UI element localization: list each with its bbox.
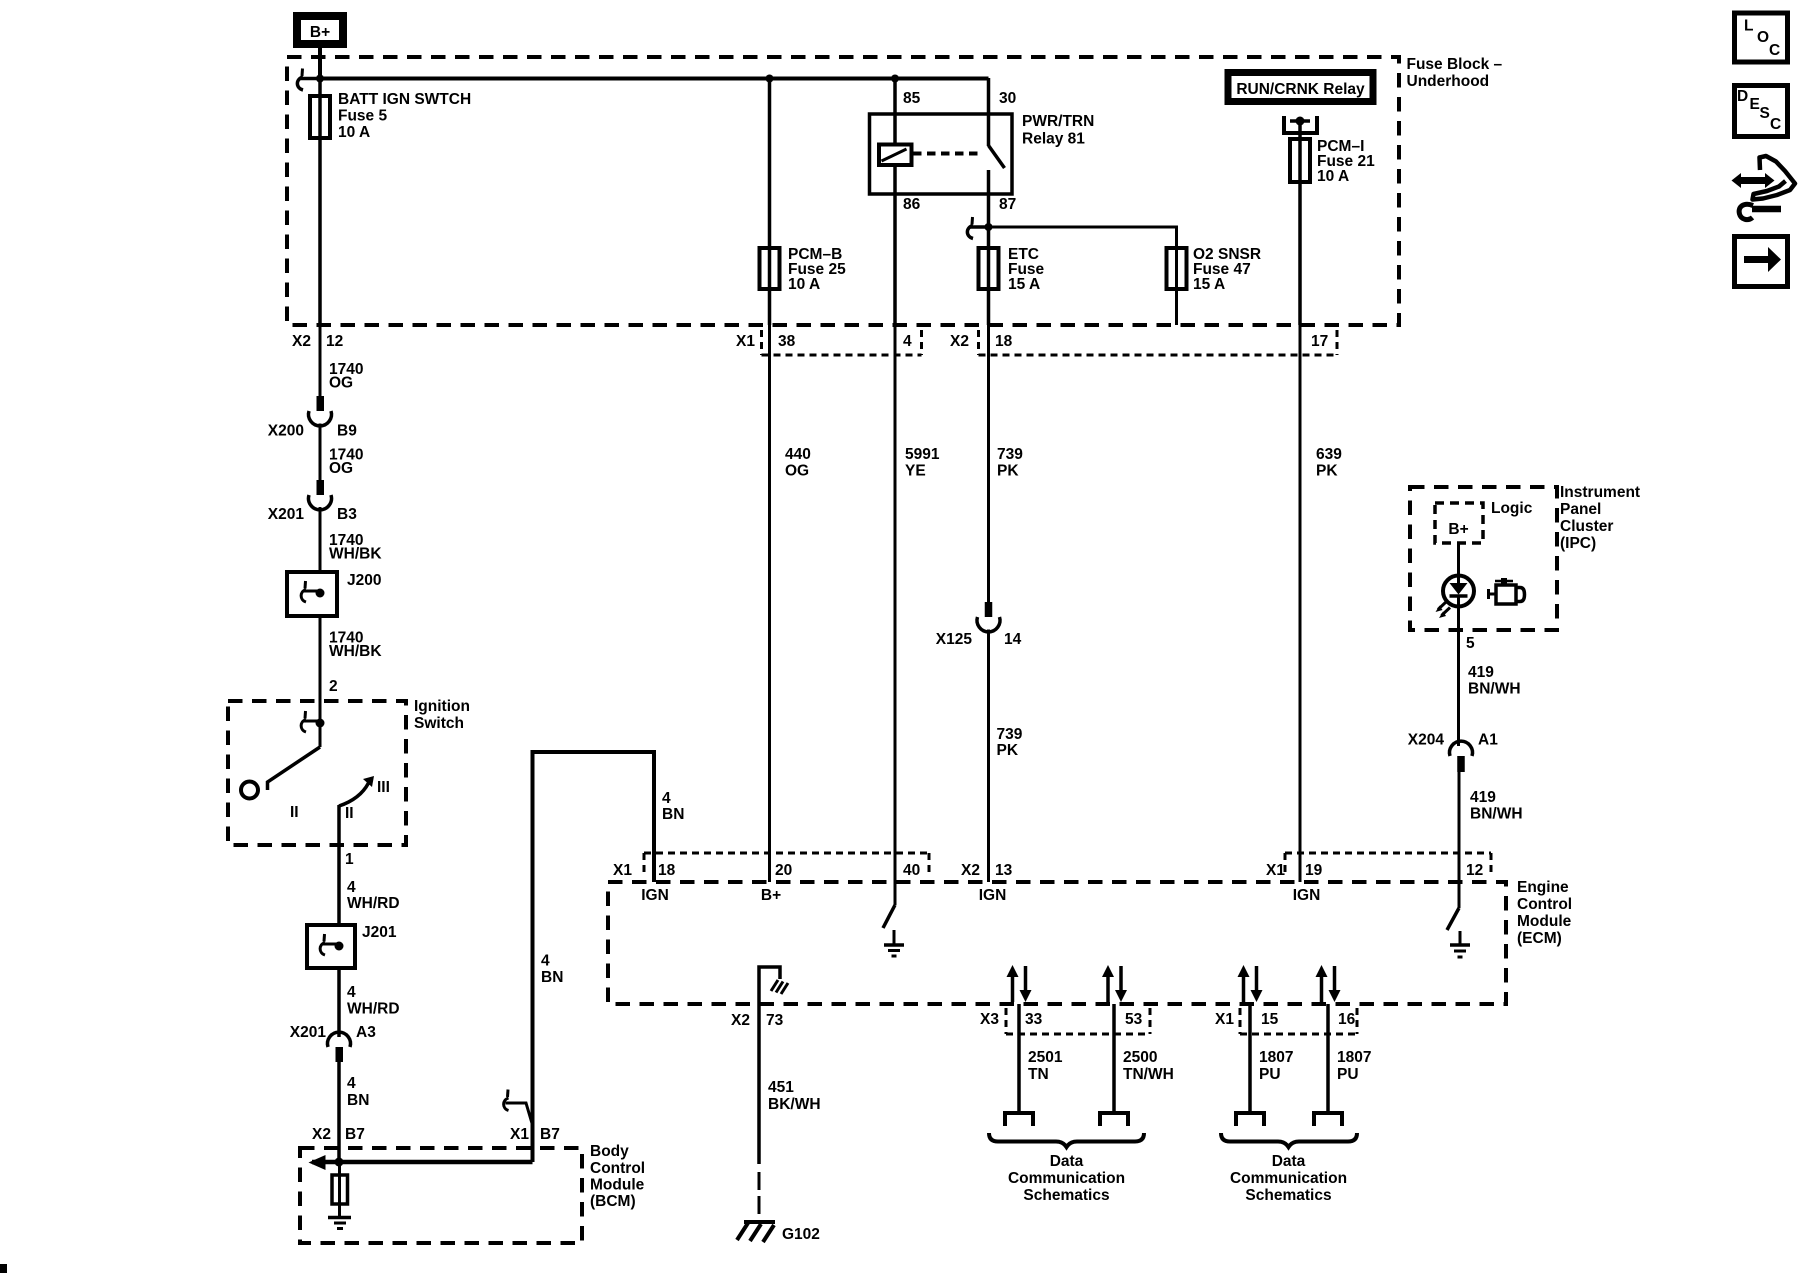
svg-text:IGN: IGN [979, 887, 1007, 904]
LOC reference box [1735, 13, 1788, 62]
svg-text:C: C [1769, 42, 1780, 59]
wire 4 BN from X201-A3 to BCM [312, 1062, 369, 1162]
wire 1740 OG from X200 [320, 424, 363, 483]
ECM pin X2-73 internal chassis ground [759, 967, 788, 1004]
svg-text:OG: OG [329, 375, 353, 392]
svg-text:B+: B+ [1448, 521, 1468, 538]
svg-text:O: O [1757, 29, 1769, 46]
svg-text:19: 19 [1305, 862, 1323, 879]
svg-text:IGN: IGN [641, 887, 669, 904]
svg-text:10 A: 10 A [788, 276, 820, 293]
svg-text:(IPC): (IPC) [1560, 535, 1596, 552]
fuse block connector X2 pin 12 labels [292, 333, 343, 350]
svg-text:1807: 1807 [1337, 1049, 1371, 1066]
svg-text:30: 30 [999, 90, 1016, 107]
wire B+ to indicator LED [1457, 543, 1460, 577]
svg-text:2501: 2501 [1028, 1049, 1063, 1066]
DESC reference box [1735, 86, 1788, 137]
svg-text:1: 1 [345, 851, 354, 868]
fuse PCM-B Fuse 25 10A [760, 246, 847, 293]
svg-text:12: 12 [1466, 862, 1483, 879]
svg-text:18: 18 [658, 862, 676, 879]
svg-text:Switch: Switch [414, 715, 464, 732]
svg-text:PK: PK [997, 463, 1019, 480]
forward arrow box [1735, 237, 1788, 287]
relay output terminal bracket [1284, 116, 1317, 139]
svg-text:419: 419 [1470, 789, 1496, 806]
svg-text:X204: X204 [1408, 732, 1445, 749]
pointer squiggle icon [1732, 156, 1796, 220]
wire PCM-I fuse down to pin 17 [1298, 139, 1302, 325]
svg-text:L: L [1744, 18, 1753, 35]
svg-text:Data: Data [1050, 1153, 1084, 1170]
wire 739 PK X125 to ECM X2-13 [989, 630, 1023, 883]
wire branch to O2 SNSR fuse [989, 227, 1177, 248]
wire inside BCM with arrow [309, 1155, 533, 1170]
svg-text:2500: 2500 [1123, 1049, 1157, 1066]
wire 4 BN label near ECM pin 18 [662, 790, 684, 823]
svg-text:18: 18 [995, 333, 1013, 350]
svg-text:20: 20 [775, 862, 792, 879]
svg-text:14: 14 [1004, 631, 1022, 648]
svg-text:B7: B7 [540, 1126, 560, 1143]
svg-text:Relay 81: Relay 81 [1022, 131, 1085, 148]
wire 1807 PU from pin 15 [1250, 1004, 1293, 1113]
svg-text:4: 4 [903, 333, 912, 350]
in-line connector X125 pin 14 [936, 602, 1022, 648]
svg-text:OG: OG [329, 460, 353, 477]
svg-text:X200: X200 [268, 423, 304, 440]
ECM connector X1 bottom bracket pins 15 and 16 [1215, 1008, 1357, 1034]
ground G102 [737, 1222, 820, 1243]
splice hook inside ignition switch [301, 711, 324, 732]
wire ignition switch pin 1 [339, 805, 400, 925]
svg-text:J200: J200 [347, 572, 381, 589]
wire 419 BN/WH X204 to ECM pin 12 [1459, 771, 1523, 882]
in-line connector X201 pin A3 [290, 1024, 376, 1062]
svg-text:B9: B9 [337, 423, 357, 440]
wire relay pin 30 from bus [987, 78, 991, 146]
ECM connector X3 bottom bracket pins 33 and 53 [980, 1008, 1150, 1034]
indicator LED in IPC [1443, 576, 1474, 607]
Engine Control Module (ECM) dashed box [608, 879, 1572, 1004]
svg-text:Data: Data [1272, 1153, 1306, 1170]
svg-text:WH/RD: WH/RD [347, 1001, 400, 1018]
svg-text:Communication: Communication [1008, 1170, 1125, 1187]
wire 440 OG PCM-B fuse to ECM pin 20 [770, 325, 811, 882]
wire from B+ box into fuse block [318, 48, 322, 78]
svg-text:Communication: Communication [1230, 1170, 1347, 1187]
svg-text:13: 13 [995, 862, 1013, 879]
fuse ETC Fuse 15A [979, 246, 1045, 293]
svg-text:A3: A3 [356, 1024, 376, 1041]
wire 1740 OG from X2-12 [320, 325, 363, 398]
junction block J201 [307, 924, 397, 968]
engine icon (MIL) in IPC [1489, 578, 1525, 604]
svg-text:J201: J201 [362, 924, 397, 941]
svg-text:B7: B7 [345, 1126, 365, 1143]
svg-text:Engine: Engine [1517, 879, 1569, 896]
wire 451 BK/WH from ECM X2-73 [759, 1004, 821, 1164]
svg-text:12: 12 [326, 333, 343, 350]
svg-text:86: 86 [903, 196, 921, 213]
Ignition Switch dashed box [228, 698, 470, 845]
junction node at relay 85 branch [891, 75, 899, 83]
wire PCM-B through fuse block [768, 78, 772, 325]
svg-text:Body: Body [590, 1143, 629, 1160]
svg-text:(BCM): (BCM) [590, 1193, 636, 1210]
svg-text:WH/RD: WH/RD [347, 895, 400, 912]
svg-text:B+: B+ [310, 24, 330, 41]
svg-text:40: 40 [903, 862, 920, 879]
off-page terminator pin 53 [1100, 1113, 1128, 1126]
svg-text:BN: BN [541, 969, 563, 986]
svg-text:440: 440 [785, 446, 811, 463]
svg-text:419: 419 [1468, 664, 1494, 681]
wire through fuse 5 down to X2-12 [318, 78, 322, 325]
junction node at pin 87 branch [985, 223, 993, 231]
svg-text:2: 2 [329, 678, 338, 695]
ignition switch rotary arc to III [339, 776, 374, 806]
junction node at B+ fuse 5 [316, 75, 324, 83]
Fuse Block - Underhood label [1407, 56, 1503, 90]
Data Communication Schematics label right [1230, 1153, 1347, 1204]
relay actuation dashed link [913, 152, 983, 156]
wire 2500 TN/WH from pin 53 [1114, 1004, 1174, 1113]
off-page terminator pin 16 [1314, 1113, 1342, 1126]
ECM pin 40 internal switch to ground [883, 882, 904, 956]
wire 639 PK PCM-I fuse to ECM X1-19 [1300, 325, 1342, 882]
svg-text:III: III [377, 779, 390, 796]
B+ battery feed box [297, 16, 343, 44]
wire 1807 PU from pin 16 [1328, 1004, 1371, 1113]
svg-text:739: 739 [997, 726, 1023, 743]
svg-text:5: 5 [1466, 635, 1475, 652]
ECM pin 12 internal switch to ground [1447, 882, 1470, 957]
wire 4 WH/RD from J201 [339, 968, 400, 1037]
wire relay pin 86 down through coil [893, 165, 897, 325]
brace data communication right [1221, 1133, 1357, 1147]
svg-text:1807: 1807 [1259, 1049, 1293, 1066]
svg-text:A1: A1 [1478, 732, 1498, 749]
brace data communication left [989, 1133, 1144, 1147]
svg-text:73: 73 [766, 1012, 784, 1029]
wire IPC pin 5 down to X204 [1459, 606, 1521, 746]
svg-text:BN: BN [347, 1092, 369, 1109]
svg-text:X2: X2 [312, 1126, 331, 1143]
Instrument Panel Cluster (IPC) dashed box [1410, 484, 1640, 630]
svg-text:E: E [1750, 96, 1760, 113]
svg-text:38: 38 [778, 333, 796, 350]
wire 1740 WH/BK from J200 to ignition switch pin 2 [320, 616, 382, 747]
wire 4 BN from BCM X1-B7 up and over to ECM pin 18 [510, 752, 654, 1162]
svg-text:PK: PK [997, 742, 1019, 759]
fuse inside BCM [332, 1175, 348, 1204]
ECM connector X1 top bracket pins 18 20 40 [613, 853, 929, 879]
svg-text:RUN/CRNK Relay: RUN/CRNK Relay [1236, 81, 1365, 98]
ECM serial data pin 53 arrows [1102, 965, 1127, 1002]
svg-text:X125: X125 [936, 631, 973, 648]
svg-text:BN/WH: BN/WH [1470, 806, 1523, 823]
svg-text:5991: 5991 [905, 446, 940, 463]
svg-text:87: 87 [999, 196, 1016, 213]
relay coil [879, 145, 912, 166]
ignition switch position labels [290, 779, 390, 822]
svg-text:Schematics: Schematics [1023, 1187, 1109, 1204]
svg-text:G102: G102 [782, 1226, 820, 1243]
svg-text:Fuse Block –: Fuse Block – [1407, 56, 1503, 73]
LED emission arrows [1436, 602, 1451, 619]
svg-text:Instrument: Instrument [1560, 484, 1640, 501]
RUN/CRNK Relay label box [1228, 73, 1373, 102]
fuse O2 SNSR Fuse 47 15A [1167, 246, 1262, 293]
svg-text:X1: X1 [1215, 1011, 1234, 1028]
svg-text:C: C [1770, 116, 1781, 133]
svg-text:D: D [1737, 88, 1748, 105]
svg-text:Cluster: Cluster [1560, 518, 1613, 535]
fuse PCM-I Fuse 21 10A [1290, 138, 1375, 185]
wire BCM fuse to ground [338, 1162, 341, 1217]
ECM connector X2 pin 13 labels [961, 862, 1013, 904]
svg-text:15: 15 [1261, 1011, 1279, 1028]
svg-text:53: 53 [1125, 1011, 1143, 1028]
svg-text:II: II [290, 804, 299, 821]
wire continuation dashes to G102 [758, 1172, 761, 1214]
svg-text:Schematics: Schematics [1245, 1187, 1331, 1204]
svg-text:B+: B+ [761, 887, 781, 904]
svg-text:4: 4 [347, 1075, 356, 1092]
relay switch blade pin 30 to 87 [989, 146, 1005, 195]
relay U81 PWR/TRN box [870, 90, 1095, 213]
wire relay pin 87 down [987, 194, 991, 325]
svg-text:OG: OG [785, 463, 809, 480]
svg-text:Control: Control [1517, 896, 1572, 913]
page corner mark [0, 1264, 7, 1273]
wire O2 SNSR fuse to block edge [1175, 248, 1178, 325]
svg-text:IGN: IGN [1293, 887, 1321, 904]
svg-text:X2: X2 [292, 333, 311, 350]
svg-text:Module: Module [590, 1177, 645, 1194]
svg-text:X1: X1 [736, 333, 755, 350]
svg-text:X1: X1 [613, 862, 632, 879]
svg-text:PU: PU [1337, 1066, 1359, 1083]
svg-text:Underhood: Underhood [1407, 73, 1490, 90]
splice hook at left end of B+ bus [297, 69, 320, 91]
svg-text:TN/WH: TN/WH [1123, 1066, 1174, 1083]
svg-text:X1: X1 [510, 1126, 529, 1143]
svg-text:Ignition: Ignition [414, 698, 470, 715]
IPC internal B+ dashed box [1435, 503, 1483, 543]
svg-text:10 A: 10 A [338, 124, 370, 141]
svg-text:Logic: Logic [1491, 500, 1533, 517]
junction block J200 [287, 572, 381, 616]
svg-text:17: 17 [1311, 333, 1328, 350]
ignition switch blade [268, 747, 321, 790]
svg-text:X201: X201 [290, 1024, 327, 1041]
Body Control Module (BCM) dashed box [300, 1143, 645, 1243]
svg-text:X2: X2 [731, 1012, 750, 1029]
in-line connector X200 pin B9 [268, 396, 357, 440]
svg-text:TN: TN [1028, 1066, 1049, 1083]
Fuse Block - Underhood dashed box [287, 57, 1399, 325]
svg-text:WH/BK: WH/BK [329, 546, 382, 563]
in-line connector X201 pin B3 [268, 480, 357, 523]
svg-text:II: II [345, 805, 354, 822]
splice hook on BCM X1-B7 wire [504, 1090, 533, 1126]
svg-text:X2: X2 [950, 333, 969, 350]
wire 5991 YE relay 86 to ECM pin 40 [895, 325, 940, 882]
ECM connector X1 right bracket pins 19 and 12 [1266, 853, 1491, 904]
ECM connector X2 pin 73 labels [731, 1012, 784, 1029]
off-page terminator pin 15 [1236, 1113, 1264, 1126]
ECM serial data pin 15 arrows [1238, 965, 1263, 1002]
wire B+ bus along fuse block top [320, 77, 989, 81]
off-page terminator pin 33 [1005, 1113, 1033, 1126]
svg-text:X3: X3 [980, 1011, 999, 1028]
ground inside BCM [328, 1218, 351, 1229]
svg-text:10 A: 10 A [1317, 168, 1349, 185]
svg-text:B3: B3 [337, 506, 357, 523]
wire relay pin 85 from bus [893, 78, 897, 146]
svg-text:739: 739 [997, 446, 1023, 463]
wire 739 PK ETC fuse to X125 [989, 325, 1024, 604]
fuse block connector X2 bracket pins 18 and 17 [950, 330, 1337, 355]
svg-text:S: S [1760, 105, 1770, 122]
svg-text:4: 4 [347, 984, 356, 1001]
svg-text:X2: X2 [961, 862, 980, 879]
svg-text:Module: Module [1517, 913, 1572, 930]
svg-text:451: 451 [768, 1079, 794, 1096]
ECM pin names IGN B+ [641, 887, 781, 904]
svg-text:WH/BK: WH/BK [329, 643, 382, 660]
fuse F5 BATT IGN SWTCH 10A [310, 91, 471, 141]
svg-text:X201: X201 [268, 506, 305, 523]
svg-text:Fuse 5: Fuse 5 [338, 108, 387, 125]
svg-text:15 A: 15 A [1008, 276, 1040, 293]
svg-text:4: 4 [541, 953, 550, 970]
ECM serial data pin 16 arrows [1316, 965, 1341, 1002]
in-line connector X204 pin A1 [1408, 732, 1498, 773]
ignition switch contact circle [241, 782, 258, 799]
svg-text:BN: BN [662, 806, 684, 823]
Data Communication Schematics label left [1008, 1153, 1125, 1204]
svg-text:639: 639 [1316, 446, 1342, 463]
svg-text:Panel: Panel [1560, 501, 1601, 518]
svg-text:15 A: 15 A [1193, 276, 1225, 293]
svg-text:X1: X1 [1266, 862, 1285, 879]
svg-text:85: 85 [903, 90, 921, 107]
svg-text:Control: Control [590, 1160, 645, 1177]
svg-text:4: 4 [347, 879, 356, 896]
ECM serial data pin 33 arrows [1007, 965, 1032, 1002]
svg-text:PWR/TRN: PWR/TRN [1022, 113, 1094, 130]
svg-text:YE: YE [905, 463, 926, 480]
wire 2501 TN from pin 33 [1019, 1004, 1063, 1113]
svg-text:BK/WH: BK/WH [768, 1096, 821, 1113]
svg-text:BATT IGN SWTCH: BATT IGN SWTCH [338, 91, 471, 108]
junction node at PCM-B branch [766, 75, 774, 83]
splice hook at pin 87 branch [967, 217, 988, 239]
svg-text:16: 16 [1338, 1011, 1356, 1028]
svg-text:4: 4 [662, 790, 671, 807]
svg-text:(ECM): (ECM) [1517, 930, 1562, 947]
wire 1740 WH/BK from X201 [320, 507, 382, 572]
fuse block connector X1 bracket pins 38 and 4 [736, 330, 922, 355]
svg-text:BN/WH: BN/WH [1468, 681, 1521, 698]
svg-text:33: 33 [1025, 1011, 1043, 1028]
svg-text:PK: PK [1316, 463, 1338, 480]
svg-text:PU: PU [1259, 1066, 1281, 1083]
